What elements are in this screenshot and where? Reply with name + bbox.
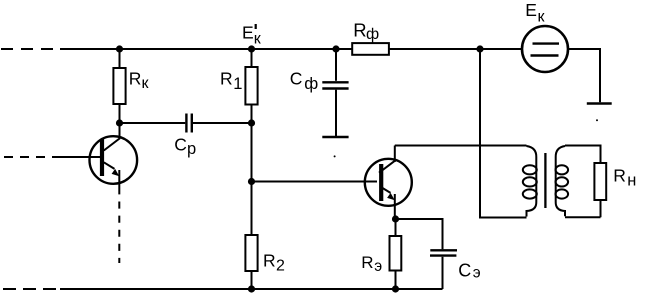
svg-text:R: R <box>353 19 366 40</box>
wire Q2 collector to transformer primary top <box>395 145 527 147</box>
capacitor Cf plates <box>322 82 348 88</box>
transistor Q2 base bar <box>379 164 383 201</box>
source Ek inner line lower <box>531 54 559 56</box>
stray mark right side <box>596 119 598 121</box>
transistor Q1 emitter <box>104 162 115 169</box>
resistor R2 bottom wire <box>251 271 253 289</box>
capacitor Cp left wire <box>120 122 186 124</box>
transistor Q1 circle <box>90 136 138 184</box>
svg-text:R: R <box>129 69 142 89</box>
svg-text:н: н <box>627 172 636 190</box>
wire input base lead dashed <box>4 156 60 158</box>
wire secondary bottom <box>565 200 601 217</box>
wire base lead Q2 <box>252 181 378 183</box>
wire emitter node to Ce <box>396 219 443 249</box>
transistor Q1 emitter dashed continuation <box>118 202 120 264</box>
svg-text:ф: ф <box>366 26 379 43</box>
source Ek inner line upper <box>533 42 560 44</box>
resistor Rf body <box>352 43 389 55</box>
svg-text:к: к <box>538 9 546 26</box>
capacitor Cp right wire <box>193 122 252 124</box>
node R2 bottom rail <box>248 285 255 292</box>
node Re bottom rail <box>392 285 399 292</box>
transformer secondary winding loop 1 <box>556 165 569 174</box>
svg-text:C: C <box>174 134 187 154</box>
capacitor Ce bottom wire <box>442 257 444 289</box>
transistor Q2 emitter <box>380 186 391 193</box>
stray mark near Cf <box>334 155 336 157</box>
svg-text:R: R <box>361 253 373 272</box>
source Ek circle <box>522 26 568 72</box>
node top feed <box>476 45 483 52</box>
transformer secondary winding hook <box>556 146 565 216</box>
svg-text:R: R <box>263 251 276 271</box>
svg-text:C: C <box>290 69 303 89</box>
svg-text:E: E <box>525 0 537 20</box>
node emitter Q2 <box>392 215 399 222</box>
transformer secondary winding loop 3 <box>556 189 569 198</box>
transistor Q1 collector <box>104 123 120 151</box>
svg-text:э: э <box>473 264 481 281</box>
svg-text:2: 2 <box>276 258 285 275</box>
resistor Re body <box>390 236 402 271</box>
svg-text:1: 1 <box>233 75 242 93</box>
svg-text:R: R <box>220 69 233 89</box>
wire emitter node to Re <box>395 219 397 236</box>
resistor R2 body <box>245 235 257 271</box>
wire top rail <box>60 48 522 50</box>
svg-text:C: C <box>458 260 471 280</box>
transformer primary winding loop 1 <box>523 165 537 174</box>
transistor Q2 emitter arrowhead <box>387 193 395 200</box>
wire bottom rail dashed lead-in <box>3 288 60 290</box>
transformer secondary winding loop 2 <box>556 177 569 186</box>
wire R1 node to R2 <box>251 123 253 235</box>
node Q1 collector / Cp <box>116 119 123 126</box>
svg-text:э: э <box>374 258 382 275</box>
capacitor Cf terminal bar <box>322 136 348 138</box>
transistor Q1 emitter arrowhead <box>112 169 120 176</box>
resistor RK body <box>113 68 125 104</box>
resistor Rn body <box>594 163 606 200</box>
svg-text:к: к <box>142 75 150 92</box>
wire input base lead solid <box>60 156 101 158</box>
node top RK <box>116 45 123 52</box>
transformer primary winding top hook <box>527 146 537 217</box>
transistor Q1 emitter lead <box>118 170 120 194</box>
svg-text:к: к <box>254 31 262 48</box>
capacitor Cf top wire <box>335 49 337 81</box>
wire Ek to ground <box>568 49 600 102</box>
transistor Q1 base bar <box>100 139 104 176</box>
wire bottom rail <box>60 288 443 290</box>
resistor RK wires <box>119 49 121 123</box>
ground bar <box>587 102 612 105</box>
svg-text:R: R <box>613 166 626 186</box>
svg-text:E: E <box>242 23 254 43</box>
transformer core <box>544 153 546 208</box>
wire transformer primary bottom <box>479 217 527 219</box>
svg-text:р: р <box>187 140 196 158</box>
resistor R1 body <box>245 67 257 105</box>
wire secondary top <box>565 146 601 164</box>
wire feed node down to primary bottom <box>479 49 481 218</box>
wire top rail dashed lead-in <box>1 48 60 50</box>
capacitor Ce plates <box>430 250 457 255</box>
transformer primary winding loop 2 <box>523 177 537 186</box>
node base Q2 <box>248 178 255 185</box>
transistor Q2 circle <box>365 159 412 206</box>
svg-text:ф: ф <box>304 74 318 93</box>
node top Cf <box>332 45 339 52</box>
resistor Re bottom wire <box>395 271 397 290</box>
node R1 bottom / Cp <box>248 119 255 126</box>
resistor R1 wires <box>251 49 253 123</box>
capacitor Cf bottom wire <box>335 90 337 136</box>
node top R1 <box>248 45 255 52</box>
transistor Q2 collector <box>379 146 395 173</box>
capacitor Cp plates <box>186 114 191 133</box>
transformer primary winding loop 3 <box>523 189 537 198</box>
transistor Q2 emitter lead <box>394 194 396 219</box>
